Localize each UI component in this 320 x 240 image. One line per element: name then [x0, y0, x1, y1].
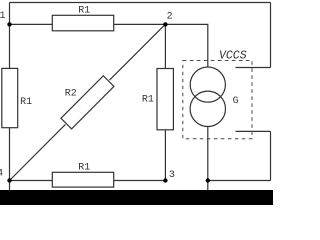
wire top rail from node 1 riser to right rail — [10, 2, 271, 4]
wire resistor R1 top to node 2 — [114, 23, 166, 25]
black bar at bottom — [0, 190, 273, 205]
resistor R1 bottom box — [52, 172, 113, 187]
resistor R1 right box — [157, 69, 173, 130]
wire right resistor to node 3 — [164, 130, 166, 181]
wire node 1 to resistor R1 top — [10, 23, 53, 25]
wire node 4 to bottom resistor — [10, 180, 53, 182]
wire bottom resistor to node 3 — [114, 180, 166, 182]
current source circle upper — [190, 67, 225, 102]
svg-text:R1: R1 — [20, 97, 32, 108]
wire left resistor to node 4 — [9, 128, 11, 181]
wire node 4 stub down into black bar — [9, 181, 11, 192]
node 1 dot — [7, 22, 11, 26]
svg-text:G: G — [233, 95, 239, 106]
wire VCCS lower right stub — [236, 130, 271, 132]
wire node 2 down to right resistor — [164, 24, 166, 68]
wire node 1 down to left resistor — [9, 24, 11, 68]
wire current source bottom to junction — [207, 126, 209, 180]
wire junction stub down into black bar — [207, 181, 209, 192]
svg-text:R1: R1 — [78, 5, 90, 16]
svg-text:R2: R2 — [65, 88, 77, 99]
svg-text:3: 3 — [169, 170, 175, 181]
resistor R2 diagonal box — [61, 76, 114, 129]
wire diagonal node 4 to resistor R2 — [10, 124, 66, 180]
junction node dot at VCCS output — [206, 178, 210, 182]
wire diagonal resistor R2 to node 2 — [110, 24, 166, 80]
wire bottom right from junction to right rail — [208, 180, 271, 182]
wire right rail upper segment down to VCCS upper stub — [270, 3, 272, 68]
wire right rail lower segment to bottom wire — [270, 131, 272, 180]
svg-text:R1: R1 — [78, 162, 90, 173]
node 2 dot — [163, 22, 167, 26]
svg-text:4: 4 — [0, 169, 3, 180]
svg-text:2: 2 — [167, 12, 173, 23]
VCCS dashed box — [183, 61, 252, 139]
svg-text:1: 1 — [0, 11, 6, 22]
wire VCCS upper right stub — [236, 67, 271, 69]
node 4 dot — [7, 178, 11, 182]
current source circle lower — [190, 91, 225, 126]
wire node 2 to VCCS input corner — [165, 24, 207, 67]
resistor R1 top box — [52, 15, 113, 30]
wire node 1 riser — [9, 3, 11, 25]
node 3 dot — [163, 178, 167, 182]
svg-text:VCCS: VCCS — [219, 49, 247, 62]
resistor R1 left box — [2, 68, 18, 127]
svg-text:R1: R1 — [142, 95, 154, 106]
